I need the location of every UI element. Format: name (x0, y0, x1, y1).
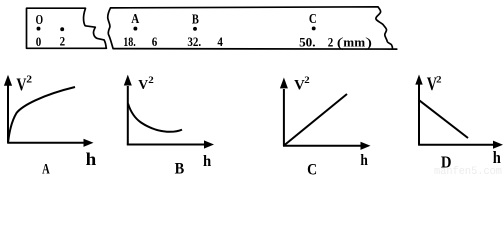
svg-text:V: V (138, 77, 148, 92)
svg-text:mm: mm (343, 35, 365, 49)
svg-text:2: 2 (304, 76, 310, 86)
graph D y-axis (418, 84, 420, 145)
graph D x-axis (418, 144, 494, 146)
svg-text:6: 6 (152, 35, 158, 49)
svg-text:V: V (294, 78, 305, 94)
svg-text:2: 2 (148, 76, 154, 86)
paper tape left piece outline (27, 8, 107, 48)
svg-text:V: V (16, 74, 26, 94)
svg-text:50.: 50. (299, 35, 315, 49)
dot at 2 (60, 27, 64, 31)
graph B y-axis arrowhead (124, 75, 132, 86)
graph C y-axis arrowhead (280, 78, 288, 89)
dot C (312, 26, 316, 30)
svg-text:h: h (493, 148, 501, 167)
graph D y-axis arrowhead (415, 75, 422, 85)
graph B curve (128, 104, 182, 132)
svg-text:): ) (365, 36, 372, 51)
svg-text:2: 2 (328, 35, 334, 49)
graph C x-axis (283, 145, 362, 147)
dot A (133, 27, 137, 31)
dot B (193, 27, 197, 31)
svg-text:O: O (36, 12, 44, 27)
graph A y-axis arrowhead (4, 75, 12, 86)
graph A y-axis (7, 85, 9, 143)
graph B x-axis arrowhead (204, 140, 214, 148)
svg-text:h: h (203, 152, 211, 170)
graph C x-axis arrowhead (361, 142, 371, 150)
graph D line (419, 100, 468, 138)
graph B x-axis (127, 144, 206, 146)
svg-text:h: h (86, 149, 97, 169)
svg-text:C: C (307, 160, 317, 175)
svg-text:manfen5.com: manfen5.com (434, 166, 502, 175)
svg-text:2: 2 (26, 75, 32, 86)
graph D x-axis arrowhead (493, 141, 503, 149)
svg-text:A: A (131, 11, 139, 26)
svg-text:A: A (42, 162, 50, 176)
svg-text:18.: 18. (123, 35, 136, 49)
svg-text:0: 0 (36, 35, 42, 49)
graph A curve (8, 87, 75, 142)
svg-text:2: 2 (436, 75, 442, 85)
paper tape right piece outline (108, 7, 397, 49)
svg-text:32.: 32. (187, 35, 201, 49)
graph A x-axis (7, 142, 85, 144)
graph C line (284, 94, 347, 145)
svg-text:B: B (175, 161, 185, 176)
svg-text:B: B (192, 11, 199, 26)
svg-text:2: 2 (60, 35, 66, 49)
graph B y-axis (127, 86, 129, 145)
dot under O (37, 27, 41, 31)
svg-text:4: 4 (217, 35, 223, 49)
svg-text:h: h (360, 152, 368, 169)
graph A x-axis arrowhead (84, 139, 94, 147)
graph C y-axis (283, 89, 285, 146)
svg-text:C: C (309, 11, 317, 26)
